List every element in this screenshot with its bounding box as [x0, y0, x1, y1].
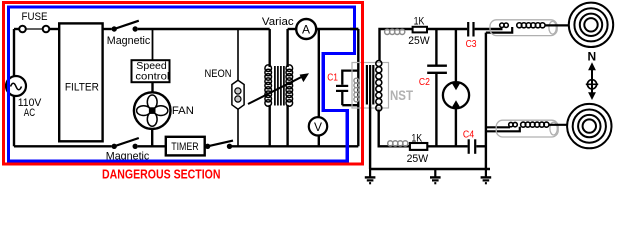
svg-text:1K: 1K	[411, 133, 422, 145]
fuse F1	[19, 26, 26, 33]
capacitor C1	[342, 69, 358, 71]
wire left vertical lower	[13, 96, 15, 146]
wire NST primary feed	[357, 29, 359, 146]
svg-text:NST: NST	[390, 88, 414, 103]
wire A over blue	[350, 28, 358, 30]
filter box	[59, 23, 102, 141]
svg-text:DANGEROUS SECTION: DANGEROUS SECTION	[102, 166, 221, 181]
svg-text:C4: C4	[463, 130, 475, 141]
svg-text:control: control	[135, 71, 169, 83]
variac core	[275, 66, 284, 106]
spark gap branch	[455, 29, 457, 83]
voltmeter V	[309, 117, 327, 135]
svg-text:Magnetic: Magnetic	[107, 35, 151, 47]
wire top left	[14, 28, 19, 30]
NST gray box	[352, 63, 389, 109]
tesla top secondary return	[486, 27, 512, 33]
NST core ground line	[369, 105, 371, 170]
ground G3	[485, 169, 487, 177]
NST core	[366, 65, 368, 105]
wire neon branch	[237, 29, 239, 146]
wire NST secondary top	[380, 29, 413, 61]
capacitor C2 branch	[435, 29, 437, 65]
svg-text:FAN: FAN	[172, 105, 194, 117]
wire resistor to C3	[427, 28, 467, 30]
svg-text:25W: 25W	[407, 153, 429, 165]
wire bottom middle	[230, 145, 359, 147]
tesla top tube	[490, 20, 557, 36]
wire tube to toroid top	[546, 24, 570, 26]
red border	[4, 3, 363, 165]
wire NST secondary bottom	[379, 110, 410, 147]
tesla bottom primary	[509, 122, 518, 126]
wire speed branch	[152, 29, 154, 60]
switch magnetic top	[112, 26, 117, 31]
wire left vertical	[13, 29, 15, 76]
tesla bottom secondary return	[486, 127, 520, 132]
tesla bottom secondary	[521, 122, 549, 127]
svg-text:FILTER: FILTER	[65, 81, 99, 93]
variac left winding	[269, 29, 271, 67]
wire fuse to filter	[49, 28, 59, 30]
wire bottom left	[14, 145, 112, 147]
wire filter to switch	[103, 28, 112, 30]
tesla top secondary	[517, 23, 545, 28]
AC source 110V	[6, 76, 26, 96]
toroid bottom	[567, 104, 611, 148]
capacitor C4	[468, 139, 470, 154]
wire speed to fan	[151, 82, 153, 92]
timer box	[166, 137, 205, 156]
capacitor C3	[467, 22, 469, 37]
speed control box	[132, 60, 170, 82]
wire fan to bottom	[151, 129, 153, 146]
toroid top	[569, 3, 613, 47]
spark arrow between toroids	[591, 66, 593, 97]
svg-text:C3: C3	[466, 39, 477, 50]
svg-text:C2: C2	[419, 77, 430, 88]
tesla top primary	[500, 23, 509, 27]
tesla bottom tube	[496, 120, 558, 137]
ground G2	[434, 169, 436, 177]
svg-text:1K: 1K	[414, 15, 425, 27]
tesla bottom input wire	[486, 126, 510, 128]
ammeter A	[296, 19, 316, 39]
ground bus	[369, 168, 490, 171]
svg-text:N: N	[588, 49, 597, 63]
switch timer	[205, 144, 210, 149]
blue border	[9, 7, 355, 161]
variac arrow	[248, 76, 303, 104]
wire V branch	[318, 29, 320, 117]
wire C4 to right vertical	[476, 145, 487, 147]
wire C3 to tesla top	[475, 28, 503, 30]
svg-text:FUSE: FUSE	[22, 11, 48, 23]
wire switch to timer	[138, 145, 166, 147]
svg-text:25W: 25W	[408, 35, 430, 47]
svg-text:TIMER: TIMER	[171, 141, 199, 153]
wire bottom to C4	[427, 145, 467, 147]
resistor R2 1K 25W bottom	[410, 143, 427, 150]
ground G1	[369, 169, 371, 177]
choke top gray	[385, 29, 405, 34]
wire tube to toroid bottom	[549, 124, 568, 126]
svg-text:Variac: Variac	[262, 16, 294, 28]
wire variac to ammeter	[288, 28, 297, 30]
svg-text:C1: C1	[327, 73, 338, 84]
resistor R1 1K 25W top	[413, 27, 427, 33]
neon lamp	[232, 80, 244, 109]
switch magnetic bottom	[112, 144, 117, 149]
wire top middle	[138, 28, 270, 30]
svg-text:NEON: NEON	[205, 68, 232, 80]
choke bottom gray	[388, 141, 408, 146]
svg-text:AC: AC	[24, 107, 35, 119]
wire ammeter right	[316, 28, 358, 30]
svg-text:V: V	[314, 120, 322, 134]
NST secondary winding	[376, 61, 382, 111]
NST primary winding gray	[354, 78, 359, 102]
right ground vertical	[485, 33, 487, 169]
svg-text:A: A	[302, 23, 310, 37]
variac right winding	[286, 29, 288, 67]
fan M1	[134, 92, 171, 129]
